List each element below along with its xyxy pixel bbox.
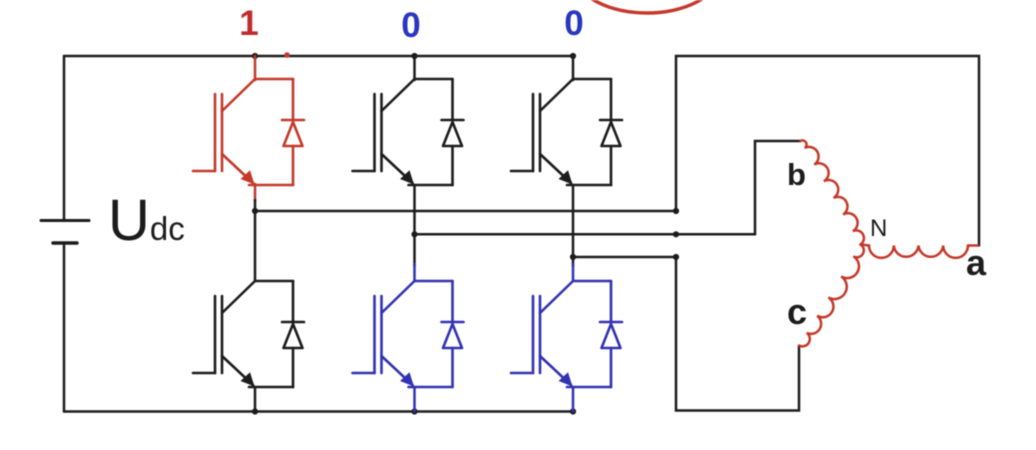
winding c coil [799, 245, 864, 347]
annotation red ellipse arc [577, 0, 717, 13]
node N connector [861, 245, 870, 246]
IGBT+diode cell top leg A (red, on) [193, 79, 304, 185]
IGBT+diode cell bottom leg A (black) [193, 281, 304, 387]
wire leg B blue stub [413, 264, 416, 281]
wire leg A midpoint [254, 200, 257, 281]
node bottom rail leg B [411, 408, 417, 414]
node bottom rail leg C [570, 408, 576, 414]
wire leg A emitter to rail [254, 387, 257, 412]
node phase A tap [252, 208, 258, 214]
label c [787, 294, 807, 330]
wire left DC- lead [63, 243, 66, 412]
label Udc [108, 192, 185, 250]
wire leg B emitter to rail [413, 387, 416, 412]
IGBT+diode cell bottom leg B (blue, on) [353, 281, 464, 387]
wire leg C midpoint [572, 185, 575, 266]
winding a tail [968, 244, 978, 247]
wire bottom DC- rail [64, 410, 573, 413]
winding b coil [801, 140, 864, 244]
stray red dot [284, 52, 290, 58]
label 0 (blue, leg C state) [564, 6, 584, 41]
wire leg C collector stub [572, 56, 575, 80]
label 1 (red, switch state) [239, 6, 259, 41]
IGBT+diode cell top leg B (black) [353, 79, 464, 185]
wire phase C output [573, 256, 676, 259]
label 0 (blue, leg B state) [401, 8, 421, 43]
node wire3 right end [673, 254, 679, 260]
wire leg C emitter to rail [572, 387, 575, 412]
label a [966, 245, 986, 281]
node bottom rail leg A [252, 408, 258, 414]
node wire2 mid [673, 231, 679, 237]
wire leg B midpoint [413, 185, 416, 266]
wire top DC+ rail [64, 55, 573, 58]
winding a coil [869, 246, 968, 258]
wire phase C drop to bottom [676, 257, 799, 411]
node wire1 right end [673, 208, 679, 214]
wire phase B output [415, 233, 756, 236]
IGBT+diode cell bottom leg C (blue, on) [511, 281, 622, 387]
battery Udc [41, 219, 89, 222]
node top rail leg B [411, 53, 417, 59]
node top rail leg A [252, 53, 258, 59]
node top rail leg C [570, 53, 576, 59]
wire phase A output [255, 210, 676, 213]
wire leg A collector stub [254, 56, 257, 80]
node phase C tap [570, 254, 576, 260]
wire left DC+ lead [63, 56, 66, 221]
wire leg A red emitter stub [254, 184, 257, 201]
wire leg B collector stub [413, 56, 416, 80]
wire leg C blue stub [572, 264, 575, 281]
node phase B tap [411, 231, 417, 237]
IGBT+diode cell top leg C (black) [511, 79, 622, 185]
label N [870, 217, 887, 241]
wire phase B riser [755, 141, 801, 234]
wire phase A riser to top [676, 56, 979, 246]
label b [787, 159, 806, 190]
